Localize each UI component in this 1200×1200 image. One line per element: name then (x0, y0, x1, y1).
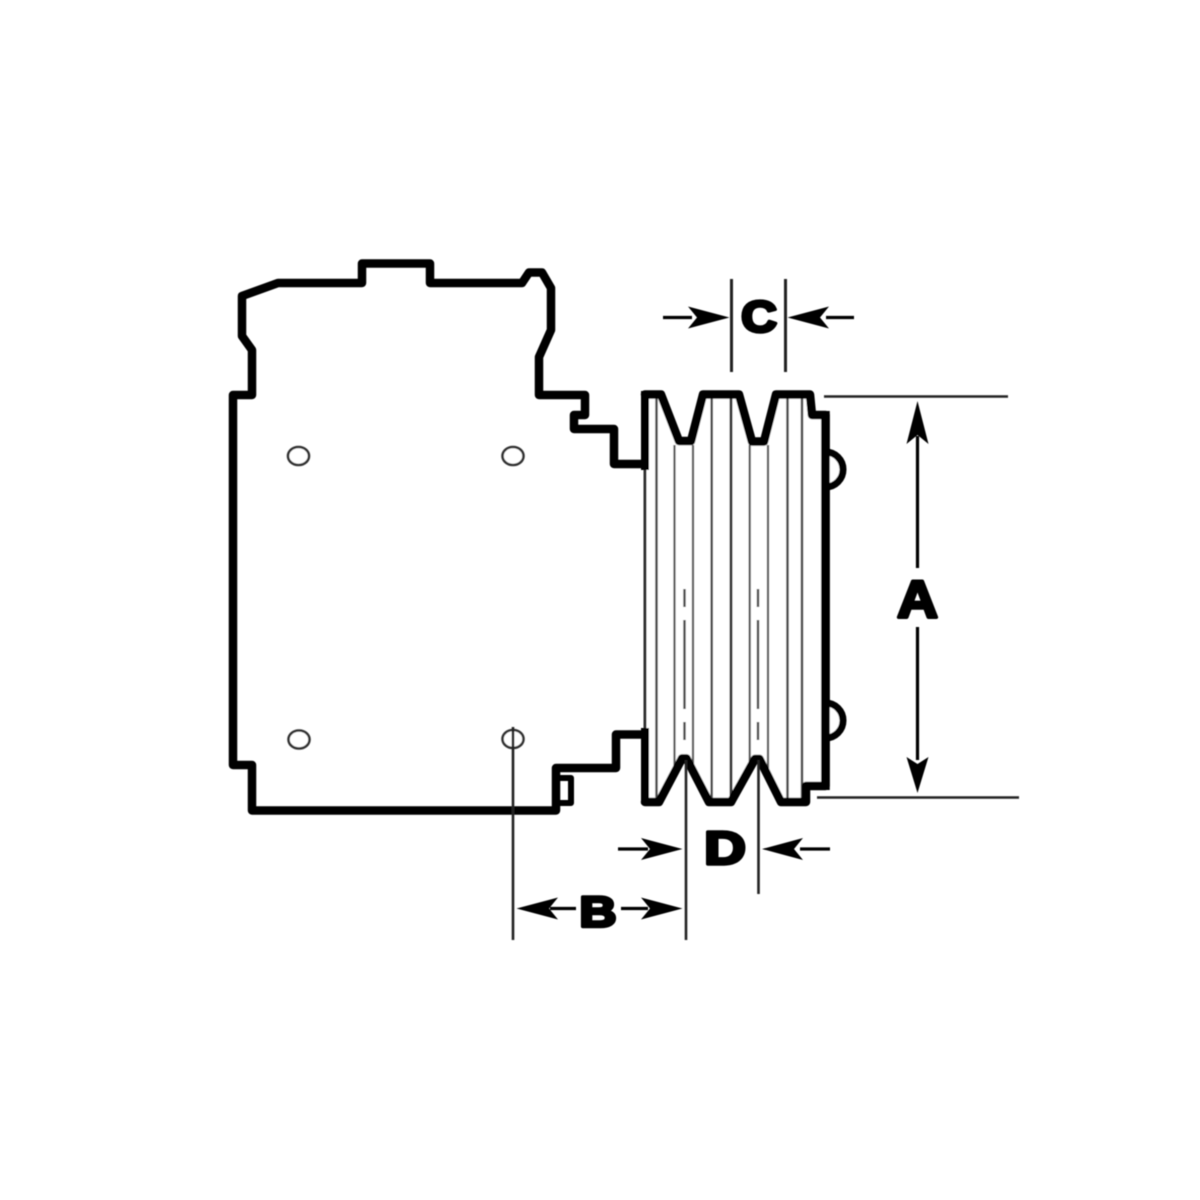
mounting hole bottom-right (503, 730, 524, 748)
bearing bump upper on clutch plate right edge (826, 452, 844, 487)
pulley face line x787 (786, 399, 789, 799)
pulley silhouette outline (645, 395, 826, 803)
pulley silhouette fill (645, 395, 826, 803)
mounting hole top-right (503, 447, 524, 465)
dimension D right extension line (757, 760, 760, 894)
pulley face line x674 groove1 left corner (673, 445, 675, 772)
svg-text:D: D (704, 823, 746, 874)
label A (897, 571, 938, 629)
svg-text:C: C (741, 292, 777, 341)
small square notch on body bottom edge (556, 778, 571, 803)
pulley face line x768 groove2 right corner (767, 445, 769, 772)
pulley face line x657 (655, 399, 658, 799)
pulley left edge thick upper segment (641, 391, 649, 470)
dimension C right arrow (826, 316, 854, 319)
label D (704, 823, 746, 874)
pulley groove2 dashed centerline (757, 589, 759, 607)
mounting hole bottom-left (289, 731, 310, 749)
dimension A arrow up (916, 436, 919, 568)
pulley left edge thin middle segment (644, 470, 647, 730)
dimension A arrow down (916, 627, 919, 760)
dimension C left arrow (663, 316, 692, 319)
mounting hole top-left (288, 447, 309, 465)
pulley face line x731 (730, 399, 733, 799)
pulley face line x802 (801, 399, 804, 799)
clutch plate right edge redrawn (821, 411, 830, 790)
dimension B left arrow (550, 907, 576, 910)
compressor body outline (233, 264, 645, 811)
label C (741, 292, 777, 341)
pulley face line x693 groove1 right corner (692, 445, 694, 766)
dimension B right / D left shared extension line (685, 760, 688, 940)
pulley groove1 dashed centerline (683, 589, 685, 607)
dimension C right extension line (784, 279, 787, 372)
dimension B right arrow (621, 907, 648, 910)
label B (580, 888, 617, 936)
dimension C left extension line (730, 279, 733, 372)
bearing bump lower on clutch plate right edge (826, 703, 844, 738)
svg-text:B: B (580, 888, 617, 936)
dimension D right arrow (800, 847, 830, 850)
dimension D left arrow (618, 847, 648, 850)
pulley left edge thick lower segment (641, 728, 649, 804)
dimension B left extension line (512, 727, 515, 940)
dimension A bottom extension line (817, 796, 1019, 799)
dimension A top extension line (824, 395, 1008, 398)
pulley face line x750 groove2 left corner (749, 445, 751, 764)
pulley face line x712 (710, 399, 713, 799)
svg-text:A: A (897, 571, 938, 629)
